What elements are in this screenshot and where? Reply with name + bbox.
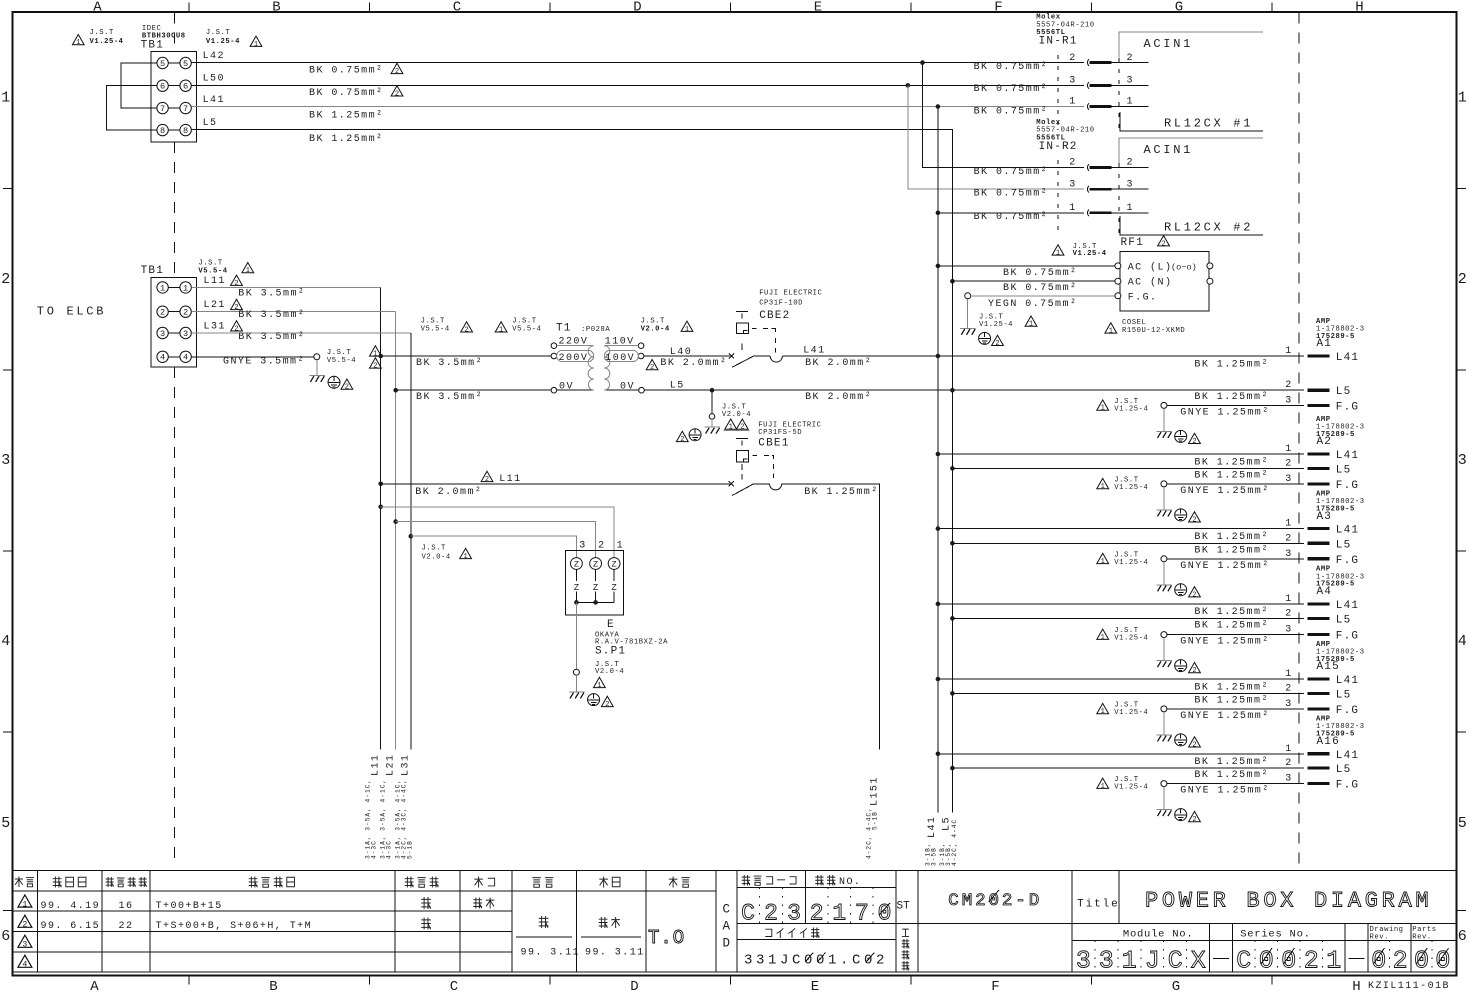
svg-text:C: C xyxy=(1236,947,1251,976)
svg-text:TB1: TB1 xyxy=(141,40,164,52)
svg-text:1: 1 xyxy=(1122,947,1137,976)
svg-text:BK 0.75mm²: BK 0.75mm² xyxy=(974,167,1049,178)
wire A15 pin1 L41 BK 1.25mm2 xyxy=(936,669,1360,693)
svg-text:4: 4 xyxy=(1,633,10,650)
revision table headers (Japanese) xyxy=(15,877,690,888)
circuit breaker CBE2 (FUJI ELECTRIC CP31F-10D) xyxy=(729,312,783,368)
connector IN-R2 (Molex 5557-04R-210 / 5556TL) xyxy=(1036,119,1119,234)
svg-text:GNYE 1.25mm²: GNYE 1.25mm² xyxy=(1180,711,1269,722)
svg-text:C: C xyxy=(450,979,458,992)
wire A1 pin3 F.G GNYE 1.25mm2 xyxy=(1161,395,1359,418)
wire L5 (TB1-8) BK 1.25mm2 turning down xyxy=(191,118,952,168)
node ACIN1 (IN-R1 mating connector) xyxy=(1119,32,1263,58)
svg-text:ACIN1: ACIN1 xyxy=(1144,143,1194,157)
svg-text:Rev.: Rev. xyxy=(1412,933,1431,941)
svg-text:H: H xyxy=(1355,0,1363,15)
drawing revision 02 xyxy=(1371,940,1407,975)
svg-text:BK 2.0mm²: BK 2.0mm² xyxy=(415,487,482,498)
svg-text:1: 1 xyxy=(1101,783,1105,791)
svg-text:BK 0.75mm²: BK 0.75mm² xyxy=(974,107,1049,118)
revision row 4 triangle 4 xyxy=(18,955,32,969)
svg-text::P028A: :P028A xyxy=(581,326,610,334)
wire A15 pin3 F.G GNYE 1.25mm2 xyxy=(1161,699,1359,722)
svg-text:CBE1: CBE1 xyxy=(758,438,789,450)
vertical bus wire L5 (feeds RF1, A1-A16 pin2) xyxy=(951,130,953,813)
approval T.O xyxy=(648,927,685,949)
svg-text:1: 1 xyxy=(597,682,601,690)
svg-text:0: 0 xyxy=(1281,947,1296,976)
svg-text:BK 1.25mm²: BK 1.25mm² xyxy=(1194,545,1269,556)
svg-text:CP31FS-5D: CP31FS-5D xyxy=(758,429,802,437)
svg-text:3: 3 xyxy=(1285,625,1292,636)
svg-text:1: 1 xyxy=(1127,203,1134,214)
svg-text:0: 0 xyxy=(1371,947,1386,976)
svg-text:Title: Title xyxy=(1077,899,1120,911)
svg-text:2: 2 xyxy=(598,540,605,551)
svg-text:4-2C, 4-4C: 4-2C, 4-4C xyxy=(951,819,958,866)
svg-text:T+00+B+15: T+00+B+15 xyxy=(156,901,223,912)
svg-text:J: J xyxy=(1145,947,1160,976)
svg-text:3: 3 xyxy=(1099,947,1114,976)
svg-text:F.G: F.G xyxy=(1336,631,1359,643)
svg-text:1: 1 xyxy=(1285,444,1292,455)
svg-text:L21: L21 xyxy=(385,754,396,776)
svg-text:0: 0 xyxy=(1259,947,1274,976)
wire A16 pin1 L41 BK 1.25mm2 xyxy=(936,744,1360,768)
svg-text:2: 2 xyxy=(1192,816,1196,824)
svg-text:5: 5 xyxy=(183,59,188,69)
svg-text:Series No.: Series No. xyxy=(1240,928,1311,940)
svg-text:V2.0-4: V2.0-4 xyxy=(422,554,451,562)
svg-text:0V: 0V xyxy=(559,382,574,393)
connector A3 (AMP 1-178802-3 / 175289-5) label block xyxy=(1316,490,1365,522)
svg-text:L41: L41 xyxy=(1336,675,1359,687)
svg-text:BK 1.25mm²: BK 1.25mm² xyxy=(1194,620,1269,631)
label J.S.T V1.25-4 with triangle 1 (A4 F.G) xyxy=(1097,627,1149,642)
svg-text:1: 1 xyxy=(1056,250,1060,258)
wire L11 off-page exit with references xyxy=(365,754,382,859)
node ACIN1 (IN-R2 mating connector) xyxy=(1119,138,1263,163)
svg-text:C: C xyxy=(453,0,461,15)
wire L40 BK 2.0mm2 (transformer 110V output to CBE2) xyxy=(644,347,730,372)
svg-text:H: H xyxy=(1352,979,1360,992)
sheet code KZIL111-01B xyxy=(1368,981,1450,992)
svg-text:V5.5-4: V5.5-4 xyxy=(198,267,227,275)
svg-text:2: 2 xyxy=(1069,158,1076,169)
svg-text:V1.25-4: V1.25-4 xyxy=(1114,484,1148,492)
connector A4 (AMP 1-178802-3 / 175289-5) label block xyxy=(1316,566,1365,598)
svg-text:1: 1 xyxy=(1101,483,1105,491)
svg-text:331JC001.C02: 331JC001.C02 xyxy=(744,953,888,969)
svg-text:16: 16 xyxy=(119,901,134,912)
svg-text:A: A xyxy=(723,920,731,934)
wire L41 BK 2.0mm2 (CBE2 output) to A1 pin1 bus xyxy=(782,346,1304,369)
svg-text:J.S.T: J.S.T xyxy=(198,260,222,268)
svg-text:A: A xyxy=(90,979,99,992)
svg-text:TO ELCB: TO ELCB xyxy=(37,305,106,319)
wire L151 BK 1.25mm2 (CBE1 output) xyxy=(782,484,880,750)
svg-text:1: 1 xyxy=(832,901,846,927)
svg-text:NO.: NO. xyxy=(839,877,861,888)
svg-text:L41: L41 xyxy=(1336,352,1359,364)
svg-text:L21: L21 xyxy=(204,300,226,311)
svg-text:ST: ST xyxy=(897,901,911,913)
svg-text:4: 4 xyxy=(160,353,165,363)
approval cells: sekkei/kenzu signatures and dates xyxy=(516,916,645,959)
svg-text:99. 4.19: 99. 4.19 xyxy=(41,901,101,912)
svg-text:4-3C: 4-3C xyxy=(386,840,393,859)
label J.S.T V2.0-4 at L5 ground xyxy=(722,404,751,419)
svg-text:T1: T1 xyxy=(556,323,572,335)
svg-text:D: D xyxy=(630,979,638,992)
svg-text:1: 1 xyxy=(1069,97,1076,108)
svg-text:1: 1 xyxy=(1127,97,1134,108)
svg-text:IN-R2: IN-R2 xyxy=(1039,141,1078,153)
svg-text:L31: L31 xyxy=(400,754,411,776)
terminal block TB1 (upper, IDEC BTBH30CU8) xyxy=(151,52,196,142)
label J.S.T V5.5-4 at GNYE terminal with triangles 1,2 xyxy=(327,346,381,371)
svg-text:F: F xyxy=(991,979,999,992)
svg-text:3: 3 xyxy=(1285,395,1292,406)
svg-text:3: 3 xyxy=(1285,549,1292,560)
wire A16 pin2 L5 BK 1.25mm2 xyxy=(950,758,1351,781)
wire L41 off-page exit with references xyxy=(925,816,939,866)
svg-text:L5: L5 xyxy=(203,118,218,129)
svg-text:BK 0.75mm²: BK 0.75mm² xyxy=(974,212,1049,223)
parts revision 00 xyxy=(1414,940,1450,975)
svg-text:1: 1 xyxy=(246,267,250,275)
svg-text:3: 3 xyxy=(1,452,10,469)
svg-text:BK 0.75mm²: BK 0.75mm² xyxy=(309,66,384,77)
svg-text:V1.25-4: V1.25-4 xyxy=(979,321,1013,329)
svg-text:3: 3 xyxy=(1285,474,1292,485)
svg-text:L41: L41 xyxy=(1336,525,1359,537)
wire L5 BK 2.0mm2 (transformer 0V output) to A1 pin2 bus xyxy=(645,381,1305,403)
svg-text:V1.25-4: V1.25-4 xyxy=(1114,784,1148,792)
svg-text:2: 2 xyxy=(650,364,654,372)
S.P1 earth wire and ground xyxy=(569,602,613,709)
svg-text:C: C xyxy=(741,901,755,927)
svg-text:BK 1.25mm²: BK 1.25mm² xyxy=(804,487,879,498)
svg-text:A3: A3 xyxy=(1317,511,1333,523)
svg-text:99. 6.15: 99. 6.15 xyxy=(41,921,101,932)
svg-text:5: 5 xyxy=(1458,815,1467,832)
ground for A1 F.G wire xyxy=(1156,408,1200,446)
svg-text:D: D xyxy=(633,0,641,15)
svg-text:2: 2 xyxy=(1285,380,1292,391)
label J.S.T V2.0-4 with triangle 1 above L40 xyxy=(641,318,693,334)
svg-text:E: E xyxy=(814,0,822,15)
IN-R2 pin 2 xyxy=(1069,158,1148,171)
svg-text:7: 7 xyxy=(160,104,165,114)
svg-text:1: 1 xyxy=(1101,405,1105,413)
svg-text:1: 1 xyxy=(1285,346,1292,357)
svg-text:1: 1 xyxy=(1285,744,1292,755)
title block code section (bukacode / kanri no.) xyxy=(737,871,1457,972)
wire L31 off-page exit with references xyxy=(395,754,414,859)
svg-text:0: 0 xyxy=(1435,947,1450,976)
wire L21 (TB1-2) BK 3.5mm2 to vertical bus xyxy=(191,299,395,749)
svg-text:1: 1 xyxy=(1458,90,1467,107)
svg-text:S.P1: S.P1 xyxy=(595,646,626,658)
svg-text:BK 2.0mm²: BK 2.0mm² xyxy=(660,358,727,369)
svg-text:BK 0.75mm²: BK 0.75mm² xyxy=(309,88,384,99)
wire A2 pin3 F.G GNYE 1.25mm2 xyxy=(1161,474,1359,497)
svg-text:L31: L31 xyxy=(204,321,226,332)
svg-text:6: 6 xyxy=(160,82,165,92)
svg-text:3: 3 xyxy=(1076,947,1091,976)
revision row 3 triangle 3 xyxy=(18,935,32,949)
svg-text:BK 3.5mm²: BK 3.5mm² xyxy=(416,358,483,369)
surge protector S.P1 (OKAYA R.A.V-781BXZ-2A) xyxy=(566,540,625,615)
wire A16 pin3 F.G GNYE 1.25mm2 xyxy=(1161,774,1359,797)
svg-text:2: 2 xyxy=(1161,240,1165,248)
svg-text:2: 2 xyxy=(1069,53,1076,64)
svg-text:7: 7 xyxy=(183,104,188,114)
node RL12CX #1 xyxy=(1120,112,1263,131)
svg-text:2: 2 xyxy=(605,701,609,709)
wire A15 pin2 L5 BK 1.25mm2 xyxy=(950,683,1351,706)
wire L41 into IN-R2 pin1 xyxy=(936,211,1084,216)
svg-text:2: 2 xyxy=(183,308,188,318)
svg-text:3: 3 xyxy=(22,941,27,950)
svg-text:F.G: F.G xyxy=(1336,401,1359,413)
svg-text:V1.25-4: V1.25-4 xyxy=(1114,405,1148,413)
IN-R1 pin 3 xyxy=(1069,76,1148,89)
svg-text:BK 0.75mm²: BK 0.75mm² xyxy=(974,62,1049,73)
svg-text:L5: L5 xyxy=(1336,386,1352,398)
ST cell and koujikiban vertical label xyxy=(897,871,919,972)
label J.S.T V1.25-4 left of TB1 with triangle 1 xyxy=(72,29,123,47)
svg-text:AC (L): AC (L) xyxy=(1128,261,1173,273)
svg-text:3: 3 xyxy=(160,329,165,339)
svg-text:YEGN 0.75mm²: YEGN 0.75mm² xyxy=(988,299,1077,310)
svg-text:Module No.: Module No. xyxy=(1123,928,1194,940)
label J.S.T V1.25-4 with triangle 1 (A2 F.G) xyxy=(1097,477,1149,492)
wire A4 pin1 L41 BK 1.25mm2 xyxy=(936,594,1360,618)
svg-text:5-1B: 5-1B xyxy=(407,840,414,859)
svg-text:5: 5 xyxy=(1,815,10,832)
svg-text:1: 1 xyxy=(254,41,258,49)
wire A3 pin2 L5 BK 1.25mm2 xyxy=(950,533,1351,556)
wire L11 to S.P1 pin1 xyxy=(378,505,614,558)
svg-text:2: 2 xyxy=(395,90,399,98)
ground for A16 F.G wire xyxy=(1156,787,1200,825)
svg-text:R150U-12-XKMD: R150U-12-XKMD xyxy=(1122,327,1185,335)
svg-text:BK 2.0mm²: BK 2.0mm² xyxy=(805,358,872,369)
label IDEC BTBH30CU8 TB1 xyxy=(141,25,186,52)
svg-text:3: 3 xyxy=(1127,76,1134,87)
svg-text:1: 1 xyxy=(463,553,467,561)
svg-text:2: 2 xyxy=(1285,458,1292,469)
svg-text:4-3C: 4-3C xyxy=(371,840,378,859)
svg-text:1: 1 xyxy=(183,283,188,293)
svg-text:2: 2 xyxy=(995,340,999,348)
svg-text:L151: L151 xyxy=(870,776,881,806)
svg-text:BK 1.25mm²: BK 1.25mm² xyxy=(1194,682,1269,693)
wire GNYE 3.5mm2 (TB1-4) to earth terminal xyxy=(191,354,319,368)
svg-text:V1.25-4: V1.25-4 xyxy=(1114,559,1148,567)
svg-text:F.G: F.G xyxy=(1336,480,1359,492)
label J.S.T V5.5-4 with triangle 2 (left group) xyxy=(421,318,473,335)
svg-text:BK 0.75mm²: BK 0.75mm² xyxy=(974,84,1049,95)
svg-text:V2.0-4: V2.0-4 xyxy=(641,325,670,333)
CAD column xyxy=(723,903,731,951)
circuit breaker CBE1 (FUJI ELECTRIC CP31FS-5D) xyxy=(729,439,782,496)
label J.S.T V1.25-4 with triangle 1 (RF1 input) xyxy=(1052,243,1107,258)
IN-R1 pin 2 xyxy=(1069,53,1148,66)
svg-text:D: D xyxy=(723,937,731,951)
svg-text:100V: 100V xyxy=(605,353,635,364)
svg-text:8: 8 xyxy=(183,126,188,136)
svg-text:3-5B: 3-5B xyxy=(931,847,938,866)
svg-text:ACIN1: ACIN1 xyxy=(1144,37,1194,51)
wire L21 off-page exit with references xyxy=(380,754,397,859)
svg-text:L41: L41 xyxy=(1336,600,1359,612)
svg-text:2: 2 xyxy=(810,901,824,927)
svg-text:BK 1.25mm²: BK 1.25mm² xyxy=(1194,470,1269,481)
svg-text:GNYE 1.25mm²: GNYE 1.25mm² xyxy=(1180,486,1269,497)
svg-text:J.S.T: J.S.T xyxy=(90,29,114,37)
svg-text:L5: L5 xyxy=(1336,539,1352,551)
svg-text:C: C xyxy=(723,903,731,917)
svg-text:GNYE 1.25mm²: GNYE 1.25mm² xyxy=(1180,637,1269,648)
ground for GNYE wire (protective earth) xyxy=(309,360,353,392)
wire vertical L50 tap to IN-R2 pin3 xyxy=(908,85,1084,189)
label J.S.T V1.25-4 with triangle 1 (A3 F.G) xyxy=(1097,551,1149,566)
svg-text:BK 1.25mm²: BK 1.25mm² xyxy=(1194,392,1269,403)
svg-text:1: 1 xyxy=(1101,558,1105,566)
svg-text:2: 2 xyxy=(1285,608,1292,619)
wire A3 pin1 L41 BK 1.25mm2 xyxy=(936,519,1360,543)
svg-text:2: 2 xyxy=(1192,516,1196,524)
svg-text:RL12CX #1: RL12CX #1 xyxy=(1164,117,1253,131)
svg-text:G: G xyxy=(1172,979,1180,992)
svg-text:3: 3 xyxy=(1458,452,1467,469)
wire A4 pin3 F.G GNYE 1.25mm2 xyxy=(1161,625,1359,648)
svg-text:5557-04R-210: 5557-04R-210 xyxy=(1036,21,1094,29)
svg-text:T.O: T.O xyxy=(648,927,685,949)
IN-R2 pin 1 xyxy=(1069,203,1148,216)
svg-text:2: 2 xyxy=(1393,947,1408,976)
svg-text:1: 1 xyxy=(1285,669,1292,680)
svg-text:7: 7 xyxy=(855,901,869,927)
svg-text:F.G.: F.G. xyxy=(1128,293,1158,304)
svg-text:99. 3.11: 99. 3.11 xyxy=(521,948,581,959)
Title cell POWER BOX DIAGRAM xyxy=(1072,871,1432,972)
svg-text:22: 22 xyxy=(119,921,134,932)
svg-text:BK 0.75mm²: BK 0.75mm² xyxy=(1003,283,1078,294)
label J.S.T V1.25-4 with triangle 1 (A15 F.G) xyxy=(1097,702,1149,717)
svg-text:A: A xyxy=(93,0,102,15)
connector A2 (AMP 1-178802-3 / 175289-5) label block xyxy=(1316,416,1365,448)
wire L5 horizontal into IN-R2 pin2 area BK 0.75mm2 labels xyxy=(974,62,1049,223)
connector A16 (AMP 1-178802-3 / 175289-5) label block xyxy=(1316,716,1365,748)
label J.S.T V2.0-4 with triangle 1 (S.P1 wires) xyxy=(422,544,472,561)
wire L21 to S.P1 pin2 xyxy=(393,519,595,557)
title block revision table xyxy=(13,871,1457,972)
revision row 1: triangle 1, 99.4.19, 16, T+00+B+15 xyxy=(18,895,494,912)
ground for A4 F.G wire xyxy=(1156,638,1200,676)
vertical bus wire L41 (feeds IN-R2, RF1, A1-A16 pin1) xyxy=(937,107,939,813)
svg-text:BK 1.25mm²: BK 1.25mm² xyxy=(1194,695,1269,706)
ground for RF1 F.G. wire xyxy=(960,299,1037,348)
svg-text:BK 1.25mm²: BK 1.25mm² xyxy=(1194,532,1269,543)
wire A3 pin3 F.G GNYE 1.25mm2 xyxy=(1161,549,1359,572)
svg-text:V5.5-4: V5.5-4 xyxy=(327,357,356,365)
svg-text:Z: Z xyxy=(574,560,579,570)
node RL12CX #2 xyxy=(1120,216,1263,235)
wire vertical L42 tap to IN-R2 pin2 xyxy=(923,63,1085,168)
svg-text:2: 2 xyxy=(345,384,349,392)
svg-text:6: 6 xyxy=(1,928,10,945)
svg-text:V1.25-4: V1.25-4 xyxy=(1114,709,1148,717)
svg-text:2: 2 xyxy=(1192,667,1196,675)
wire A1 pin2 L5 BK 1.25mm2 xyxy=(950,380,1351,403)
svg-text:Rev.: Rev. xyxy=(1370,933,1389,941)
series number C0021 xyxy=(1236,940,1341,975)
svg-text:0V: 0V xyxy=(620,382,635,393)
svg-text:220V: 220V xyxy=(559,337,589,348)
svg-text:POWER BOX DIAGRAM: POWER BOX DIAGRAM xyxy=(1145,889,1432,914)
svg-text:2: 2 xyxy=(1192,438,1196,446)
wire L31 (TB1-3) BK 3.5mm2 to vertical bus xyxy=(191,321,410,750)
svg-text:200V: 200V xyxy=(559,353,589,364)
panel boundary dashed centerline (left) xyxy=(174,13,176,864)
svg-text:BK 0.75mm²: BK 0.75mm² xyxy=(1003,268,1078,279)
label J.S.T V1.25-4 right of TB1 with triangle 1 xyxy=(206,29,262,49)
IN-R1 pin 1 xyxy=(1069,97,1148,110)
ground branch of L5 (secondary neutral earth) xyxy=(676,388,720,444)
svg-text:4: 4 xyxy=(183,353,188,363)
ground for A3 F.G wire xyxy=(1156,562,1200,600)
svg-text:B: B xyxy=(272,0,280,15)
svg-text:1: 1 xyxy=(617,540,624,551)
svg-text:2: 2 xyxy=(1192,741,1196,749)
svg-text:F: F xyxy=(994,0,1002,15)
wire loop TB1-6 to TB1-8 xyxy=(107,86,163,130)
svg-text:L11: L11 xyxy=(370,754,381,776)
svg-text:BK 1.25mm²: BK 1.25mm² xyxy=(1194,457,1269,468)
svg-text:8: 8 xyxy=(160,126,165,136)
label COSEL R150U-12-XKMD with triangle 1 xyxy=(1105,319,1185,336)
svg-text:(o~o): (o~o) xyxy=(1171,262,1197,272)
svg-text:1: 1 xyxy=(1101,708,1105,716)
svg-text:1: 1 xyxy=(685,326,689,334)
svg-text:BK 1.25mm²: BK 1.25mm² xyxy=(1194,770,1269,781)
wire L42 (TB1-5 to IN-R1 pin2) BK 0.75mm2 xyxy=(191,51,1084,76)
svg-text:L5: L5 xyxy=(1336,689,1352,701)
svg-text:5: 5 xyxy=(160,59,165,69)
svg-text:L5: L5 xyxy=(1336,464,1352,476)
svg-text:L5: L5 xyxy=(1336,614,1352,626)
module / series / revision header cells xyxy=(1072,924,1457,973)
IN-R2 pin 3 xyxy=(1069,179,1148,192)
svg-text:2: 2 xyxy=(160,308,165,318)
svg-text:F.G: F.G xyxy=(1336,555,1359,567)
svg-text:99. 3.11: 99. 3.11 xyxy=(585,948,645,959)
svg-text:6: 6 xyxy=(183,82,188,92)
svg-text:IN-R1: IN-R1 xyxy=(1039,35,1078,47)
svg-text:L41: L41 xyxy=(803,346,825,357)
svg-text:2: 2 xyxy=(22,921,27,930)
svg-text:L5: L5 xyxy=(670,381,685,392)
svg-text:GNYE 1.25mm²: GNYE 1.25mm² xyxy=(1180,786,1269,797)
svg-text:1: 1 xyxy=(499,326,503,334)
svg-text:GNYE 1.25mm²: GNYE 1.25mm² xyxy=(1180,561,1269,572)
dash separator xyxy=(1213,958,1229,960)
wire L11 (TB1-1) BK 3.5mm2 to vertical bus xyxy=(191,275,380,749)
